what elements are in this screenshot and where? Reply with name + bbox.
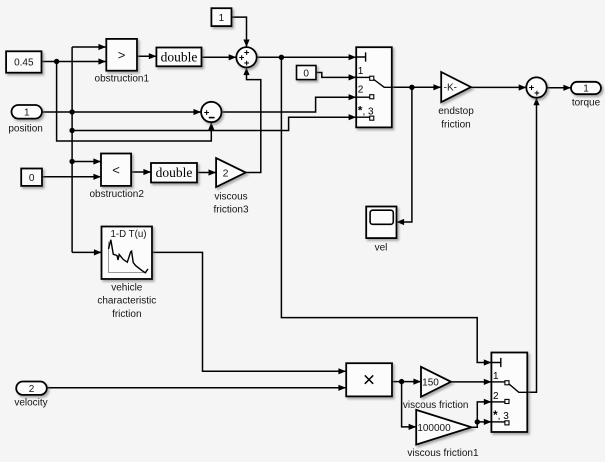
svg-text:0.45: 0.45 [14, 58, 34, 69]
svg-text:0: 0 [29, 173, 35, 184]
svg-text:viscous friction: viscous friction [403, 400, 469, 411]
svg-text:0: 0 [303, 69, 309, 80]
wire: branch down to vel scope [397, 87, 412, 222]
svg-text:double: double [161, 49, 198, 64]
svg-text:150: 150 [422, 378, 439, 389]
outport 1 torque [571, 82, 601, 94]
svg-text:obstruction2: obstruction2 [89, 189, 144, 200]
svg-text:+: + [244, 48, 250, 59]
junction on sum1 output [279, 55, 284, 60]
constant block 1 (top) [211, 8, 231, 26]
sum1 three plus inputs [236, 47, 256, 67]
wire: sum1 output down and across to switch1 control [281, 57, 491, 362]
gain viscous friction value 150 [421, 367, 451, 397]
svg-text:friction: friction [441, 119, 470, 130]
wire: velocity to product input 2 [47, 387, 346, 389]
multiport switch 1 (top) [356, 47, 392, 127]
svg-text:velocity: velocity [14, 398, 47, 409]
relational operator obstruction2 [101, 154, 131, 186]
wire: product branch down to viscous friction1 gain [402, 382, 417, 427]
wire: position to switch input 3 [72, 117, 356, 130]
svg-text:friction3: friction3 [213, 205, 248, 216]
lookup table vehicle characteristic friction 1-D T(u) [102, 227, 153, 280]
switch2 control stub [491, 358, 500, 367]
lookup table axes [109, 242, 147, 273]
svg-text:+: + [244, 58, 250, 69]
constant block 0 [21, 169, 42, 186]
svg-text:1-D T(u): 1-D T(u) [111, 229, 147, 240]
junction position to obstruction2 [69, 159, 74, 164]
wire: double1 to viscous friction3 gain [197, 172, 216, 174]
inport 2 velocity [16, 382, 47, 395]
multiport switch 2 (bottom) [491, 353, 527, 433]
svg-text:1: 1 [219, 13, 225, 24]
svg-text:vel: vel [375, 243, 388, 254]
svg-text:*, 3: *, 3 [493, 408, 509, 422]
svg-text:1: 1 [493, 371, 499, 382]
svg-text:2: 2 [358, 85, 364, 96]
wire: 0.45 branch down/right to sum2 minus input [57, 62, 212, 142]
wire: position to sum2 plus input [42, 111, 201, 113]
wire: product output to viscous friction gain [392, 381, 421, 383]
svg-text:1: 1 [24, 108, 30, 119]
lookup table curve [109, 240, 149, 273]
wire: viscous friction gain to switch1 input 1 [451, 381, 491, 383]
wire: switch output to endstop friction gain [392, 86, 441, 88]
switch1 input 2 stub and contact [356, 96, 370, 98]
data type conversion double (second) [151, 163, 197, 183]
svg-text:-K-: -K- [444, 83, 457, 94]
switch1 control stub [356, 52, 365, 61]
switch1 input 3 stub and contact [356, 116, 370, 118]
wire: constant 0 to obstruction2 input 2 [42, 176, 101, 178]
constant block 0.45 [6, 51, 41, 72]
wire: position up to obstruction1 input 1 [72, 46, 106, 48]
switch1 input 1 stub and contact [356, 76, 370, 78]
svg-text:*, 3: *, 3 [358, 103, 374, 117]
junction on switch output [409, 85, 414, 90]
svg-text:2: 2 [223, 167, 229, 179]
wire: constant 1 down to sum1 top input [232, 17, 247, 47]
wire: sum3 output to torque outport [547, 87, 571, 89]
wire: position down to lookup table input [72, 251, 101, 253]
svg-text:endstop: endstop [438, 106, 474, 117]
svg-text:vehicle: vehicle [111, 282, 143, 293]
wire: position to obstruction2 input 1 [72, 161, 101, 163]
svg-text:2: 2 [493, 391, 499, 402]
wire: viscous friction3 feedback up to sum1 bottom input [246, 68, 261, 173]
wire: sum2 output to switch input 2 [222, 97, 357, 112]
gain viscous friction1 value 100000 [416, 410, 471, 445]
svg-text:100000: 100000 [417, 423, 451, 434]
svg-text:obstruction1: obstruction1 [95, 73, 150, 84]
wire: lookup table output down to product input 1 [152, 252, 346, 371]
wire: obstruction2 to double1 [131, 171, 151, 173]
gain endstop friction -K- [441, 72, 471, 102]
svg-text:viscous: viscous [214, 192, 247, 203]
svg-text:<: < [112, 162, 120, 177]
wire: sum1 output to switch control input [257, 56, 357, 58]
svg-text:double: double [156, 165, 193, 180]
product block [346, 363, 392, 396]
svg-text:characteristic: characteristic [97, 296, 156, 307]
sum2 plus minus [201, 102, 221, 122]
svg-text:viscous friction1: viscous friction1 [407, 448, 479, 459]
wire: constant 0.45 to obstruction1 input 2 [42, 61, 107, 63]
wire: branch up to switch1 input 2 [477, 402, 491, 422]
svg-text:2: 2 [29, 384, 35, 395]
wire: viscous friction1 gain to switch1 input 3 [472, 422, 492, 427]
switch1 selector diagonal to output [374, 80, 392, 88]
switch2 input 2 stub and contact [491, 401, 505, 403]
svg-text:friction: friction [112, 309, 141, 320]
scope vel [366, 207, 396, 239]
wire: endstop friction gain to sum3 [471, 86, 526, 88]
svg-text:1: 1 [358, 66, 364, 77]
svg-text:>: > [118, 47, 126, 62]
junction on 0.45 output [54, 59, 59, 64]
switch2 selector diagonal to output [509, 384, 527, 392]
svg-text:torque: torque [572, 98, 601, 109]
gain viscous friction3 value 2 [216, 158, 246, 187]
junction on viscous friction1 output [475, 419, 480, 424]
inport 1 position [12, 105, 43, 119]
wire: obstruction1 to double [137, 55, 156, 57]
junction position to multiport switch line [69, 128, 74, 133]
svg-text:+: + [534, 88, 540, 99]
wire: switch1 output up to sum3 bottom input [527, 98, 536, 393]
wire: double to sum1 [201, 56, 236, 58]
switch2 input 3 stub and contact [491, 421, 505, 423]
data type conversion double [156, 48, 201, 67]
constant block 0 (switch) [297, 66, 317, 80]
switch2 input 1 stub and contact [491, 381, 505, 383]
svg-text:1: 1 [583, 83, 589, 94]
wire: position trunk vertical [71, 47, 73, 252]
junction on product output [399, 379, 404, 384]
relational operator obstruction1 [106, 39, 137, 71]
sum3 plus plus (output) [526, 77, 546, 97]
junction on position line [69, 109, 74, 114]
wire: constant 0 to switch input 1 [316, 73, 356, 78]
svg-text:position: position [8, 123, 42, 134]
